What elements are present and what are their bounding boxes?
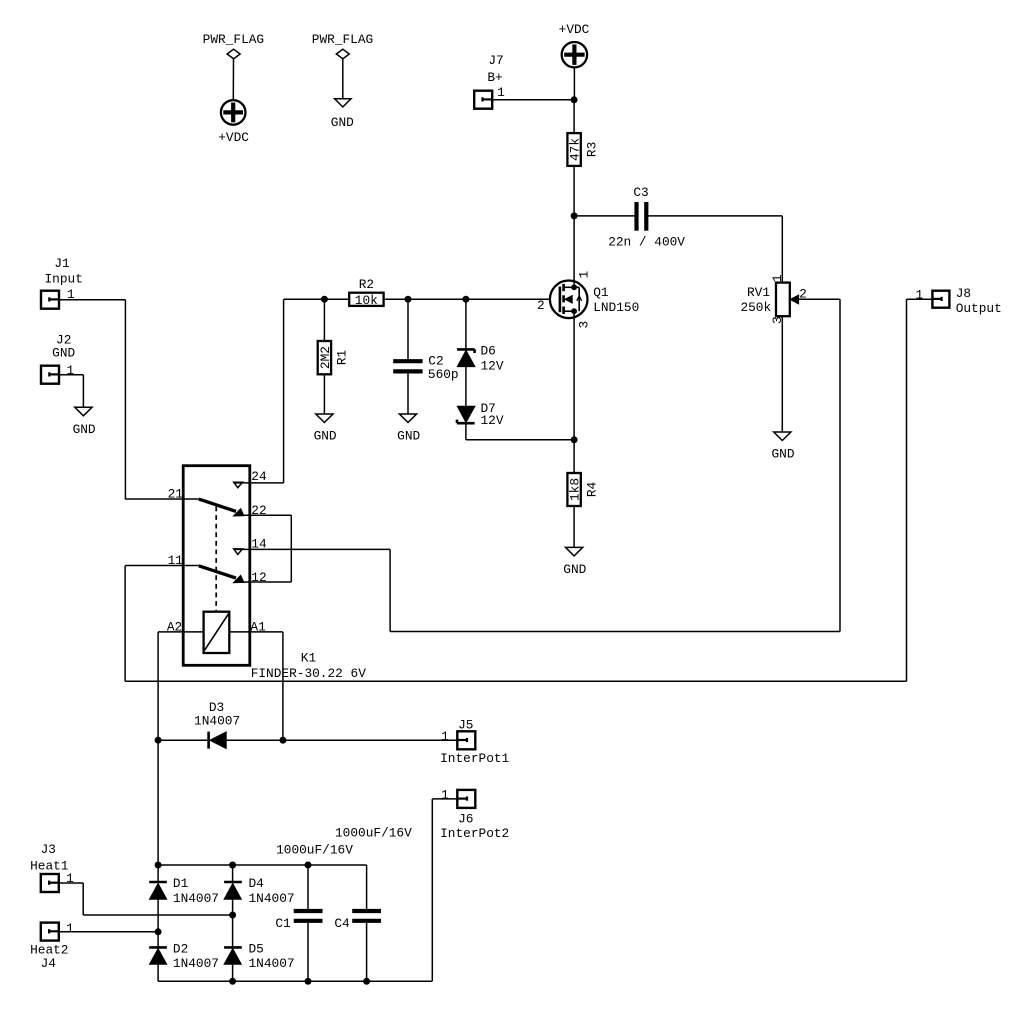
ground <box>397 414 420 444</box>
wire <box>229 631 283 633</box>
junction <box>571 436 578 443</box>
svg-text:Input: Input <box>44 272 82 287</box>
diode D3 1N4007 <box>194 700 240 749</box>
junction <box>229 912 236 919</box>
svg-text:22n / 400V: 22n / 400V <box>608 234 685 249</box>
wire <box>232 964 234 981</box>
svg-text:1: 1 <box>770 274 785 282</box>
relay K1 FINDER-30.22 6V body <box>183 466 250 666</box>
wire <box>465 423 467 440</box>
svg-text:1: 1 <box>441 729 449 744</box>
svg-text:21: 21 <box>168 487 184 502</box>
svg-text:B+: B+ <box>487 70 502 85</box>
zener diode D6 12V <box>457 344 504 374</box>
svg-text:InterPot2: InterPot2 <box>440 826 509 841</box>
svg-text:1N4007: 1N4007 <box>173 956 219 971</box>
wire <box>781 216 783 283</box>
svg-text:1: 1 <box>66 921 74 936</box>
junction <box>305 862 312 869</box>
wire <box>466 439 574 441</box>
wire <box>59 882 84 884</box>
wire <box>389 549 391 631</box>
svg-text:Heat1: Heat1 <box>30 859 69 874</box>
svg-text:J1: J1 <box>54 256 70 271</box>
wire <box>238 581 291 583</box>
wire <box>799 298 840 300</box>
svg-text:2: 2 <box>537 298 545 313</box>
junction <box>571 96 578 103</box>
connector J4 Heat2 <box>30 921 74 971</box>
junction <box>229 862 236 869</box>
wire <box>234 548 390 550</box>
svg-text:R3: R3 <box>584 142 599 157</box>
relay contact pin 14 <box>234 537 267 555</box>
svg-text:47k: 47k <box>568 138 583 161</box>
wire <box>124 300 126 500</box>
junction <box>321 296 328 303</box>
svg-text:1: 1 <box>441 788 449 803</box>
diode D2 1N4007 <box>149 932 219 971</box>
svg-text:D4: D4 <box>249 876 265 891</box>
relay mechanical link <box>215 507 217 612</box>
relay pin 21 and switch arm <box>168 487 244 516</box>
wire <box>432 798 457 800</box>
ground <box>73 407 96 437</box>
zener diode D7 12V <box>457 401 504 428</box>
svg-text:1: 1 <box>66 363 74 378</box>
transistor Q1 LND150 <box>537 270 639 328</box>
wire <box>59 931 159 933</box>
svg-text:GND: GND <box>563 562 586 577</box>
junction <box>279 737 286 744</box>
junction <box>305 978 312 985</box>
svg-text:1000uF/16V: 1000uF/16V <box>335 825 412 840</box>
svg-text:PWR_FLAG: PWR_FLAG <box>203 32 264 47</box>
ground GND (flag) <box>331 99 354 130</box>
wire <box>284 298 350 300</box>
wire <box>125 680 906 682</box>
svg-text:GND: GND <box>331 115 354 130</box>
wire <box>573 100 575 133</box>
potentiometer RV1 250k <box>740 274 806 324</box>
junction <box>229 978 236 985</box>
resistor R3 47k <box>567 133 599 166</box>
svg-text:10k: 10k <box>355 293 378 308</box>
wire <box>431 799 433 981</box>
wire <box>907 298 933 300</box>
svg-text:12: 12 <box>251 570 266 585</box>
relay coil <box>204 612 230 653</box>
svg-text:12V: 12V <box>481 358 504 373</box>
svg-text:D5: D5 <box>249 941 264 956</box>
svg-text:1N4007: 1N4007 <box>249 891 295 906</box>
wire <box>407 374 409 415</box>
svg-text:C1: C1 <box>275 916 291 931</box>
capacitor C1 1000uF/16V <box>275 842 353 931</box>
relay K1 labels <box>251 651 367 681</box>
wire <box>157 740 159 865</box>
svg-text:12V: 12V <box>481 413 504 428</box>
wire <box>465 299 467 349</box>
svg-text:D1: D1 <box>173 876 189 891</box>
wire <box>573 166 575 216</box>
wire <box>390 631 840 633</box>
svg-text:J3: J3 <box>41 842 56 857</box>
wire <box>573 506 575 547</box>
wire <box>158 631 204 633</box>
power flag PWR_FLAG (on GND) <box>312 32 373 99</box>
power symbol +VDC <box>559 22 590 67</box>
svg-text:1000uF/16V: 1000uF/16V <box>276 842 353 857</box>
svg-text:GND: GND <box>314 429 337 444</box>
wire <box>492 99 574 101</box>
ground <box>314 414 337 444</box>
diode D1 1N4007 <box>149 876 219 906</box>
svg-text:RV1: RV1 <box>747 285 770 300</box>
svg-text:LND150: LND150 <box>593 300 639 315</box>
svg-text:J4: J4 <box>41 956 57 971</box>
svg-text:PWR_FLAG: PWR_FLAG <box>312 32 373 47</box>
power symbol +VDC (flag) <box>218 100 249 145</box>
wire <box>157 964 159 981</box>
diode D4 1N4007 <box>224 876 294 906</box>
wire <box>906 299 908 681</box>
wire <box>573 311 575 440</box>
wire <box>384 298 551 300</box>
wire <box>648 215 782 217</box>
svg-text:J8: J8 <box>956 286 971 301</box>
svg-text:250k: 250k <box>740 300 771 315</box>
svg-text:K1: K1 <box>301 651 317 666</box>
connector J1 Input <box>41 256 83 309</box>
wire <box>573 67 575 99</box>
svg-text:R4: R4 <box>584 482 599 498</box>
svg-text:Q1: Q1 <box>593 285 609 300</box>
wire <box>158 980 432 982</box>
wire <box>407 299 409 359</box>
svg-text:C4: C4 <box>334 916 350 931</box>
wire <box>226 739 283 741</box>
wire <box>82 883 84 915</box>
connector J2 GND <box>41 332 76 383</box>
wire <box>234 482 284 484</box>
svg-text:560p: 560p <box>428 367 459 382</box>
svg-text:24: 24 <box>251 469 267 484</box>
wire <box>157 932 159 948</box>
ground <box>771 432 794 462</box>
power flag PWR_FLAG (on +VDC) <box>203 32 264 100</box>
svg-text:1: 1 <box>497 85 505 100</box>
relay pin 22 <box>251 503 266 518</box>
svg-text:GND: GND <box>52 346 75 361</box>
wire <box>283 299 285 483</box>
svg-text:InterPot1: InterPot1 <box>440 751 509 766</box>
relay pin 12 <box>251 570 266 585</box>
ground <box>563 547 586 577</box>
relay pin A1 <box>250 620 266 635</box>
wire <box>59 299 126 301</box>
connector J8 Output <box>916 286 1002 316</box>
wire <box>158 864 367 866</box>
svg-text:+VDC: +VDC <box>559 22 590 37</box>
junction <box>363 978 370 985</box>
wire <box>573 216 575 287</box>
connector J6 InterPot2 <box>440 788 509 841</box>
wire <box>83 914 232 916</box>
wire <box>59 374 84 376</box>
diode D5 1N4007 <box>224 941 294 971</box>
svg-text:D2: D2 <box>173 941 188 956</box>
svg-text:1: 1 <box>577 270 592 278</box>
wire <box>158 739 209 741</box>
wire <box>125 498 198 500</box>
wire <box>465 367 467 407</box>
svg-text:1: 1 <box>916 287 924 302</box>
resistor R4 1k8 <box>567 473 599 506</box>
relay pin 11 and switch arm <box>168 553 244 583</box>
relay contact pin 24 <box>234 469 267 488</box>
wire <box>290 515 292 582</box>
wire <box>232 899 234 915</box>
wire <box>157 865 159 882</box>
junction <box>462 296 469 303</box>
svg-text:J5: J5 <box>458 717 473 732</box>
resistor R2 10k <box>349 277 383 308</box>
svg-text:Output: Output <box>956 301 1002 316</box>
svg-text:D6: D6 <box>481 344 496 359</box>
svg-text:R2: R2 <box>359 277 374 292</box>
relay pin A2 <box>167 620 182 635</box>
wire <box>307 923 309 981</box>
wire <box>282 632 284 740</box>
svg-text:GND: GND <box>73 422 96 437</box>
junction <box>155 928 162 935</box>
svg-text:J6: J6 <box>458 812 473 827</box>
wire <box>157 632 159 740</box>
capacitor C2 560p <box>393 354 458 383</box>
svg-text:+VDC: +VDC <box>218 130 249 145</box>
wire <box>283 739 457 741</box>
junction <box>155 737 162 744</box>
svg-text:2M2: 2M2 <box>318 346 333 369</box>
svg-text:1N4007: 1N4007 <box>194 713 240 728</box>
wire <box>781 316 783 432</box>
svg-text:FINDER-30.22 6V: FINDER-30.22 6V <box>251 666 367 681</box>
resistor R1 2M2 <box>318 341 350 374</box>
wire <box>366 865 368 909</box>
wire <box>125 565 199 567</box>
wire <box>232 915 234 947</box>
wire <box>82 375 84 408</box>
wire <box>307 865 309 909</box>
svg-text:3: 3 <box>577 321 592 329</box>
capacitor C4 1000uF/16V <box>334 825 412 931</box>
svg-text:GND: GND <box>397 429 420 444</box>
svg-text:1N4007: 1N4007 <box>249 956 295 971</box>
capacitor C3 22n/400V <box>608 185 685 249</box>
junction <box>155 862 162 869</box>
connector J7 B+ <box>474 53 505 109</box>
wire <box>238 514 291 516</box>
wire <box>573 440 575 473</box>
wire <box>323 374 325 414</box>
connector J5 InterPot1 <box>440 717 509 766</box>
wire <box>323 299 325 341</box>
wire <box>232 865 234 882</box>
svg-text:R1: R1 <box>335 350 350 366</box>
wire <box>124 566 126 682</box>
connector J3 Heat1 <box>30 842 74 892</box>
svg-text:GND: GND <box>771 447 794 462</box>
svg-text:C3: C3 <box>633 185 648 200</box>
svg-text:J7: J7 <box>488 53 503 68</box>
junction <box>405 296 412 303</box>
wire <box>839 299 841 631</box>
wire <box>157 899 159 932</box>
wire <box>574 215 635 217</box>
wire <box>366 923 368 981</box>
svg-text:1N4007: 1N4007 <box>173 891 219 906</box>
svg-text:1k8: 1k8 <box>568 478 583 501</box>
junction <box>571 212 578 219</box>
